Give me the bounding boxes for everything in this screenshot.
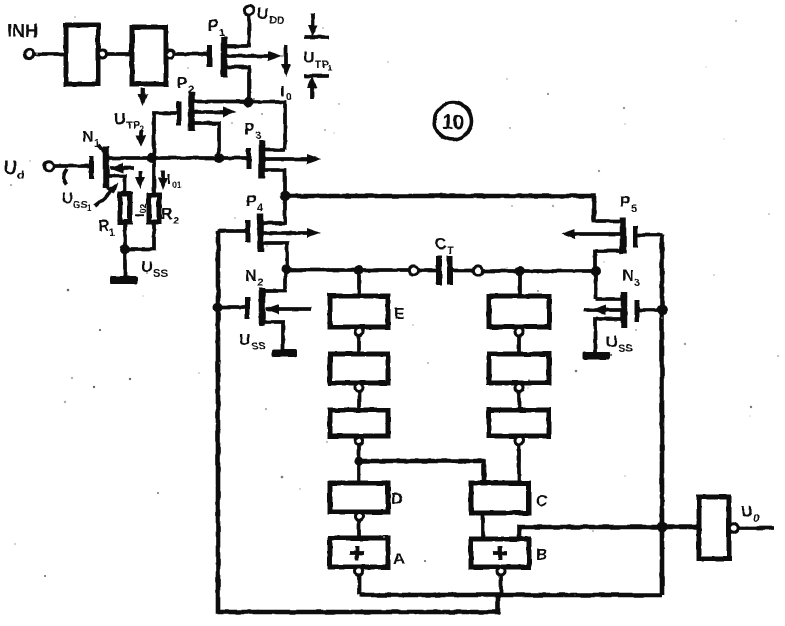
svg-text:DD: DD (269, 15, 285, 27)
svg-text:N: N (82, 129, 94, 146)
svg-text:T: T (447, 245, 454, 257)
svg-text:2: 2 (173, 215, 179, 227)
svg-text:U: U (741, 504, 753, 521)
svg-text:1: 1 (219, 27, 225, 39)
svg-text:P: P (208, 18, 219, 35)
svg-text:01: 01 (172, 180, 182, 190)
svg-text:SS: SS (618, 343, 633, 355)
svg-text:1: 1 (328, 64, 333, 73)
svg-text:C: C (435, 236, 447, 253)
svg-text:3: 3 (255, 130, 261, 142)
svg-text:U: U (257, 6, 269, 23)
svg-text:2: 2 (188, 84, 194, 96)
svg-text:D: D (391, 491, 403, 508)
svg-text:U: U (114, 111, 126, 128)
svg-text:1: 1 (109, 227, 115, 239)
svg-text:U: U (303, 50, 315, 67)
svg-text:P: P (177, 75, 188, 92)
svg-text:3: 3 (634, 277, 640, 289)
svg-text:SS: SS (153, 268, 168, 280)
svg-text:P: P (620, 194, 631, 211)
svg-text:B: B (536, 547, 548, 564)
svg-text:INH: INH (7, 21, 38, 41)
svg-text:R: R (161, 206, 173, 223)
svg-text:P: P (244, 121, 255, 138)
svg-text:N: N (245, 268, 257, 285)
svg-text:N: N (622, 268, 634, 285)
svg-text:SS: SS (251, 341, 266, 353)
svg-text:C: C (536, 493, 548, 510)
svg-text:TP: TP (126, 120, 140, 132)
svg-text:U: U (62, 190, 73, 207)
svg-text:I: I (280, 83, 284, 100)
svg-text:U: U (4, 158, 17, 178)
svg-text:GS: GS (73, 200, 88, 211)
svg-text:10: 10 (442, 111, 464, 134)
svg-text:TP: TP (315, 59, 329, 71)
svg-text:5: 5 (631, 203, 637, 215)
svg-text:A: A (393, 551, 405, 568)
svg-text:2: 2 (257, 277, 263, 289)
svg-text:0: 0 (753, 513, 759, 525)
svg-text:4: 4 (257, 202, 264, 214)
svg-text:I: I (167, 171, 171, 187)
svg-text:d: d (17, 168, 24, 182)
svg-text:P: P (246, 193, 257, 210)
svg-text:U: U (606, 334, 618, 351)
svg-text:1: 1 (87, 204, 92, 213)
svg-text:E: E (394, 306, 405, 323)
svg-text:U: U (239, 332, 251, 349)
